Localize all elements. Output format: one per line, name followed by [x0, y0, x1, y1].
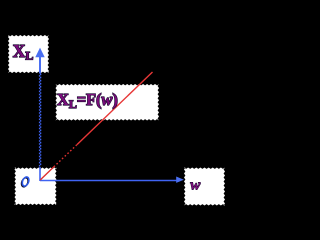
red curve F(w) solid segment inside origin box: [40, 167, 54, 180]
svg-text:XL=F(w): XL=F(w): [57, 90, 118, 111]
origin box (0): [15, 168, 57, 206]
function label box (XL=F(w)): [56, 84, 160, 121]
y-axis dotted segment: [39, 73, 41, 167]
red curve F(w) dotted segment on black: [54, 144, 78, 167]
y-axis arrowhead: [35, 48, 44, 58]
x-axis solid line: [40, 180, 179, 182]
y-axis label box (XL): [8, 35, 49, 73]
text 0 at origin (italic zero drawn as slanted ring with dark under-print): [20, 176, 30, 188]
y-axis solid segment inside origin box: [39, 167, 41, 181]
y-axis dotted segment offset: [40, 73, 42, 165]
x-axis arrowhead: [176, 177, 184, 183]
red curve F(w) solid segment: [77, 72, 153, 145]
svg-text:w: w: [190, 176, 201, 193]
x-axis label box (w): [184, 168, 225, 206]
y-axis solid shaft inside XL box: [39, 55, 41, 74]
